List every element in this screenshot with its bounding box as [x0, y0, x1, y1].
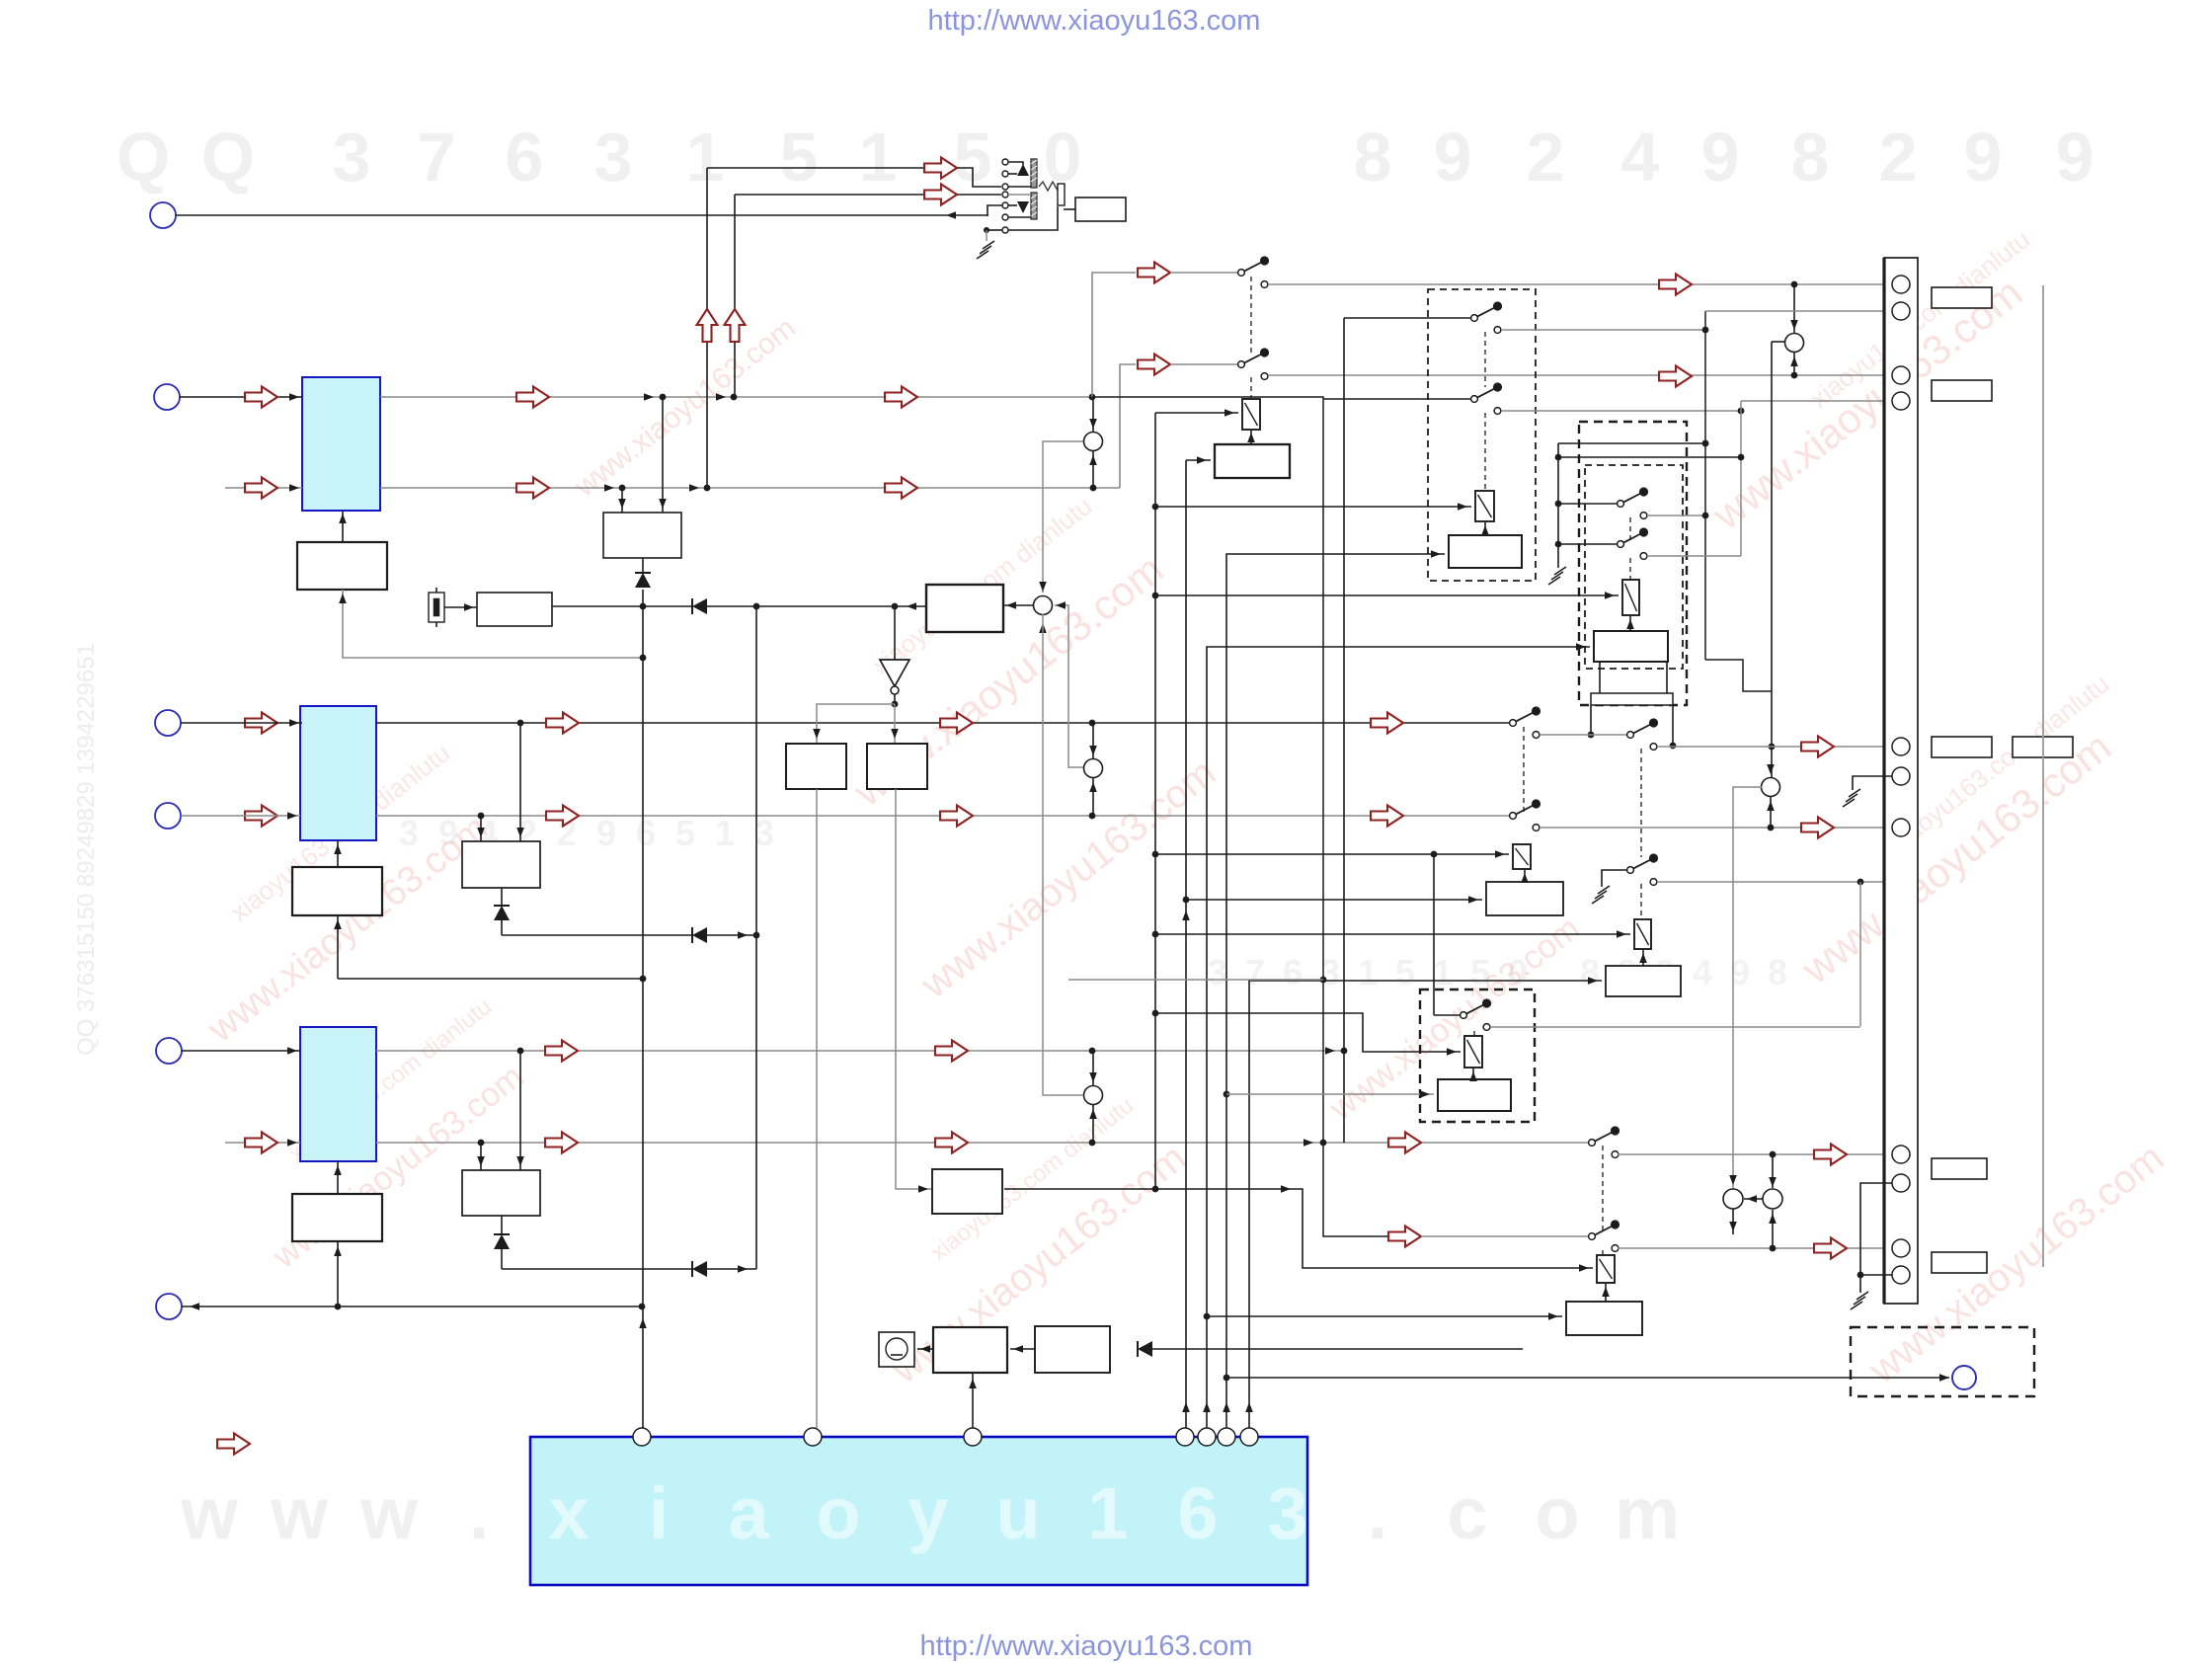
stub box CN2-4: [2013, 737, 2073, 757]
switch S2 monitor R: [1238, 348, 1270, 379]
control trunk x1340: [1092, 397, 1388, 1236]
wire y463: [1558, 456, 1741, 458]
wire pin4 line: [1741, 400, 1893, 402]
sub box B5a: [786, 744, 846, 789]
relay RL5: [1634, 919, 1651, 949]
svg-text:.: .: [1368, 1472, 1388, 1554]
wire pin6 ground: [1853, 776, 1892, 790]
control trunk x1242: [1223, 550, 1445, 1428]
signal arrow row L3 c: [1371, 713, 1403, 734]
sub box B6 under IC2: [292, 867, 382, 915]
wire J3 to IC3: [182, 1047, 300, 1055]
mute dashed SH1-SI1: [1602, 1146, 1604, 1232]
wire B21 to RL7: [1602, 1284, 1610, 1302]
wire B12 to plug: [917, 1345, 933, 1353]
svg-text:5: 5: [675, 813, 695, 853]
mute dashed SB1-RL2: [1484, 413, 1486, 491]
sub box B7 mid: [462, 841, 540, 888]
svg-text:http://www.xiaoyu163.com: http://www.xiaoyu163.com: [928, 5, 1261, 37]
signal arrow row L3 in: [245, 713, 277, 734]
signal arrow row R2 a: [545, 1133, 578, 1153]
wire B9 in a: [477, 1143, 485, 1170]
wire B21 feed: [1207, 1312, 1562, 1320]
wire M1 top: [1089, 397, 1097, 432]
signal arrow row L4 a: [546, 806, 579, 827]
svg-text:9: 9: [596, 813, 616, 853]
wire SD2 line: [1421, 1235, 1589, 1237]
sub box B18: [1486, 882, 1563, 915]
AC plug symbol: [879, 1332, 914, 1367]
signal arrow row L4 in: [245, 806, 277, 827]
mixer M3: [1084, 759, 1103, 778]
wire B18 feed: [1186, 896, 1482, 904]
connector J7 input IC2-1: [155, 710, 181, 736]
wire row L3 stub: [181, 719, 302, 727]
switch SA2: [1618, 487, 1649, 518]
wire row L1 (y402): [380, 393, 1095, 401]
wire M6 bottom: [1767, 797, 1775, 828]
record arrow up 1: [697, 309, 718, 342]
signal arrow row R2 b: [935, 1133, 968, 1153]
wire B20 feed: [1226, 1090, 1434, 1098]
wire J1 to headphone jack: [176, 211, 987, 219]
svg-text:9: 9: [2056, 119, 2094, 196]
wire y449: [1558, 440, 1708, 447]
amplifier block IC2: [300, 706, 376, 840]
svg-text:o: o: [1535, 1472, 1579, 1554]
control trunk x1222: [1203, 643, 1590, 1428]
connector bar CN1: [1884, 258, 1918, 1304]
svg-text:1: 1: [686, 119, 725, 196]
wire rec line bot2: [957, 194, 1001, 196]
wire SF1 pivot gnd: [1602, 870, 1627, 887]
wire gray y992: [1068, 979, 1323, 981]
staircase to M6: [1705, 660, 1772, 691]
pin CN1-1: [1892, 276, 1910, 293]
svg-text:9: 9: [1434, 119, 1472, 196]
board edge line x2069: [2042, 285, 2044, 1267]
pin CN1-8: [1892, 1146, 1910, 1163]
connector J1 line-in L: [150, 202, 176, 228]
svg-text:3: 3: [1208, 952, 1227, 992]
signal arrow SI1 out: [1814, 1238, 1847, 1259]
wire SB1 feed: [1323, 398, 1471, 400]
wire M7R bottom: [1769, 1210, 1777, 1248]
pin CN1-6: [1892, 767, 1910, 785]
ground at pin11: [1851, 1292, 1868, 1309]
record arrow up 2: [725, 309, 746, 342]
wire B1 to IC1: [339, 511, 347, 542]
pin CN1-11: [1892, 1266, 1910, 1284]
diode D4 row y947: [692, 927, 707, 943]
sub box B20: [1438, 1079, 1511, 1111]
mute dashed link S2-R1: [1250, 377, 1252, 399]
control trunk x1361: [1344, 318, 1471, 1143]
diode D3 under B7: [494, 888, 510, 935]
wire SA2 out: [1647, 513, 1708, 519]
mixer M7L: [1723, 1189, 1743, 1209]
signal arrow row R1 a: [545, 1041, 578, 1062]
sub box B14 relay driver: [1215, 444, 1290, 478]
svg-text:a: a: [728, 1472, 769, 1554]
switch SA1: [1471, 301, 1503, 333]
wire B14 to RL1: [1247, 430, 1255, 444]
wire B6 feed: [334, 915, 342, 979]
wire RL6 feed: [1155, 1013, 1461, 1056]
trunk x1763: [1738, 401, 1745, 556]
wire S2 out: [1268, 372, 1896, 379]
wire M4 top: [1089, 1051, 1097, 1085]
wire row y1285 right: [707, 1265, 756, 1273]
wire row R2 (y1157): [225, 1139, 300, 1147]
svg-text:8: 8: [1791, 119, 1830, 196]
signal arrow SD1 out: [1801, 737, 1834, 757]
wire row y1285: [502, 1268, 692, 1270]
wire B7 in b: [516, 723, 524, 841]
trunk x1727: [1702, 311, 1709, 660]
svg-text:1: 1: [1358, 952, 1378, 992]
control trunk x1201: [1182, 460, 1190, 1428]
diode D6 row y1285: [692, 1261, 707, 1277]
svg-text:7: 7: [1245, 952, 1265, 992]
stub box CN2-3: [1932, 737, 1992, 757]
svg-text:http://www.xiaoyu163.com: http://www.xiaoyu163.com: [920, 1630, 1253, 1662]
wire B19 to RL5: [1639, 950, 1647, 966]
signal arrow to SD2: [1388, 1227, 1421, 1247]
switch SG1: [1461, 998, 1492, 1030]
wire B7 in a: [477, 816, 485, 841]
mute dashed SC1-SE1: [1523, 727, 1525, 812]
wire M6 top arrow: [1767, 764, 1775, 774]
relay RL1: [1242, 399, 1260, 430]
mute dashed SD1 down: [1640, 749, 1642, 857]
switch SE1: [1510, 799, 1541, 831]
wire row L2 (y494): [225, 484, 302, 492]
pin P2 on system control IC: [804, 1428, 822, 1446]
wire RL2 feed: [1155, 503, 1471, 511]
vertical trunk x827 to P2: [816, 789, 818, 1428]
sub box B1 under IC1: [297, 542, 387, 590]
relay RL7: [1597, 1255, 1615, 1283]
wire B16 to RL3: [1626, 616, 1634, 631]
power box B12: [933, 1327, 1007, 1373]
svg-text:4: 4: [1693, 952, 1712, 992]
diode D2 under B3: [635, 573, 651, 588]
svg-text:3: 3: [594, 119, 633, 196]
wire power feed: [1141, 1345, 1523, 1353]
signal arrow monitor R: [1138, 355, 1170, 375]
wire riser x1107 monitor: [1092, 273, 1136, 397]
mute dashed SA1-SB1: [1484, 332, 1486, 387]
wire SB1 out: [1501, 408, 1744, 415]
ground at jack: [977, 241, 994, 259]
wire B8 feed: [334, 1241, 342, 1307]
wire B20 to RL6: [1469, 1069, 1477, 1081]
signal arrow row L4 c: [1371, 806, 1403, 827]
dashed function box D2 outer: [1579, 422, 1687, 705]
wire inverter out: [892, 694, 899, 707]
wire M5 bottom: [1790, 353, 1798, 375]
sub box B4 PLL: [926, 585, 1003, 632]
wire pin2 line: [1705, 310, 1893, 312]
wire M4 left feed: [1043, 614, 1083, 1095]
sub box B8 under IC3: [292, 1194, 382, 1241]
svg-text:8: 8: [1768, 952, 1787, 992]
switch SC1: [1510, 706, 1541, 738]
wire B17 right drop: [1670, 705, 1677, 749]
sub box B5b: [867, 744, 927, 789]
wire B14 feed: [1186, 456, 1211, 464]
wire monitor R to switch: [1170, 363, 1238, 365]
signal arrow monitor L: [1138, 263, 1170, 283]
svg-text:3: 3: [1267, 1472, 1307, 1554]
svg-text:3: 3: [399, 813, 419, 853]
wire M3 top: [1089, 723, 1097, 758]
wire SE1 out: [1540, 825, 1893, 831]
svg-text:y: y: [908, 1472, 948, 1554]
stub box CN2-1: [1932, 287, 1992, 308]
vertical trunk x907 to B11: [896, 789, 932, 1193]
svg-text:8: 8: [1580, 952, 1600, 992]
bracket ground x1578: [1555, 443, 1562, 568]
svg-text:7: 7: [418, 119, 456, 196]
wire row y947 right: [707, 931, 759, 939]
wire B6 to IC2: [334, 840, 342, 867]
switch SI1: [1589, 1220, 1620, 1251]
stub box CN2-2: [1932, 380, 1992, 401]
sub box B16 relay driver: [1594, 631, 1668, 662]
wire RL7 feed: [1004, 1185, 1593, 1272]
wire M5 top: [1790, 284, 1798, 333]
svg-text:1: 1: [859, 119, 898, 196]
ground at bracket: [1548, 567, 1566, 585]
mixer M6: [1762, 778, 1780, 797]
control trunk x1170: [1152, 413, 1159, 1192]
wire M7R to M7L: [1744, 1195, 1763, 1203]
wire row L4 stub: [181, 812, 300, 820]
wire SG1 out: [1490, 1026, 1860, 1028]
relay RL6: [1464, 1036, 1482, 1068]
connector J3 input R: [156, 1038, 182, 1064]
wire SA1 out: [1501, 327, 1708, 334]
stub box CN2-6: [1932, 1252, 1987, 1273]
stub box CN2-5: [1932, 1158, 1987, 1179]
pin CN1-5: [1892, 738, 1910, 755]
signal arrow row L1 a: [516, 387, 549, 408]
wire row y991: [338, 978, 643, 980]
pin CN1-2: [1892, 302, 1910, 320]
trunk x1794 M5-M6: [1769, 342, 1784, 778]
pin P5 on system control IC: [1198, 1428, 1216, 1446]
signal arrow SH1 out: [1814, 1145, 1847, 1165]
diode D1 row osc: [692, 598, 707, 614]
signal arrow SE1 out: [1801, 818, 1834, 838]
wire X1 to B2: [444, 603, 477, 611]
power box B13: [1035, 1326, 1110, 1373]
u-link under B16: [1600, 662, 1667, 693]
pin P4 on system control IC: [1176, 1428, 1194, 1446]
svg-text:3: 3: [754, 813, 774, 853]
signal arrow row L2 b: [885, 478, 917, 499]
svg-text:5: 5: [1395, 952, 1415, 992]
wire J2 to IC1: [180, 393, 302, 401]
signal arrow row R1 b: [935, 1041, 968, 1062]
vertical x1452: [1431, 851, 1438, 1015]
wire pin9-11 bracket: [1857, 1183, 1892, 1293]
legend arrow: [217, 1434, 250, 1455]
crystal X1: [429, 588, 444, 627]
wire row osc y614: [552, 603, 692, 610]
wire S1 out: [1268, 281, 1896, 288]
signal arrow row R2 in: [245, 1133, 277, 1153]
wire B3 in right: [618, 488, 626, 513]
mute dashed SA2-SB2: [1629, 517, 1631, 540]
vertical x1884: [1859, 882, 1861, 1026]
signal arrow S2 out: [1659, 366, 1692, 387]
mixer M4: [1084, 1086, 1103, 1105]
wire row L3 (y732): [376, 720, 1510, 727]
wire B8 to IC3: [334, 1161, 342, 1194]
relay RL4: [1513, 844, 1531, 869]
signal arrow row L2 in: [245, 478, 277, 499]
wire M1 bottom: [1089, 451, 1097, 488]
wire B3 diode: [642, 558, 644, 573]
svg-text:2: 2: [1527, 119, 1565, 196]
inverter U2: [880, 606, 909, 694]
wire M6 left: [1729, 787, 1762, 1189]
wire rec line top: [707, 158, 957, 179]
svg-text:6: 6: [506, 119, 544, 196]
svg-text:8: 8: [1354, 119, 1392, 196]
ground at pin6: [1843, 789, 1860, 807]
wire RL3 feed: [1155, 592, 1619, 599]
watermark letters over system control IC: [548, 1472, 1307, 1554]
wire row L2 out: [380, 484, 1120, 492]
svg-text:Q: Q: [117, 119, 170, 196]
wire row R1 (y1064): [376, 1047, 1347, 1055]
wire row osc y614 right: [707, 602, 926, 610]
connector J2 input L: [154, 384, 180, 410]
dashed function box D3: [1420, 990, 1535, 1122]
headphone detect box: [1075, 198, 1126, 221]
amplifier block IC1: [302, 377, 380, 511]
wire B13 to B12: [1010, 1345, 1035, 1353]
wire RL1 feed: [1155, 409, 1238, 417]
switch SD1: [1627, 718, 1659, 750]
control trunk x1265: [1245, 977, 1602, 1428]
connector J6 remote: [1952, 1366, 1976, 1389]
svg-text:m: m: [1615, 1472, 1680, 1554]
sub box B11: [932, 1169, 1002, 1214]
relay RL3: [1622, 580, 1639, 615]
wire M4 bottom: [1089, 1105, 1097, 1143]
wire to remote connector: [1226, 1374, 1949, 1382]
mixer M1: [1084, 433, 1103, 451]
svg-text:u: u: [995, 1472, 1040, 1554]
svg-text:3: 3: [333, 119, 371, 196]
diode D5 under B9: [494, 1216, 510, 1269]
switch SB1: [1471, 382, 1503, 414]
wire riser x1134: [1120, 364, 1136, 488]
wire SI1 out: [1618, 1245, 1893, 1252]
wire SA2 pivot feed: [1558, 503, 1617, 505]
amplifier block IC3: [300, 1027, 376, 1161]
svg-text:6: 6: [636, 813, 656, 853]
wire M3 bottom: [1089, 778, 1097, 816]
wire monitor L to switch: [1170, 272, 1238, 274]
svg-text:6: 6: [1283, 952, 1303, 992]
wire row R2 out: [376, 1139, 1589, 1147]
wire B12 to P3: [969, 1373, 977, 1428]
wire B18 to RL4: [1521, 870, 1529, 883]
wire SH1 out: [1618, 1151, 1893, 1158]
wire row L4 (y826): [376, 813, 1510, 820]
svg-text:QQ 376315150 89249829 139422: QQ 376315150 89249829 1394229651: [73, 643, 100, 1056]
connector J8 input IC2-2: [155, 803, 181, 829]
sub box B17 flat: [1591, 693, 1673, 705]
wire M7L down: [1729, 1209, 1737, 1234]
mute dashed SF1-RL5: [1640, 884, 1642, 917]
wire row y947: [502, 934, 692, 936]
signal arrow row L1 b: [885, 387, 917, 408]
pin P6 on system control IC: [1218, 1428, 1235, 1446]
sub box B9 mid: [462, 1170, 540, 1216]
svg-text:9: 9: [1701, 119, 1740, 196]
mute dashed SB2-RL3: [1629, 558, 1631, 580]
switch SF1: [1627, 853, 1659, 885]
wire M2 to B4: [1003, 601, 1034, 609]
svg-text:5: 5: [780, 119, 819, 196]
dashed function box D1: [1428, 289, 1536, 581]
system control IC bottom: [530, 1437, 1307, 1585]
watermark URL bottom: [920, 1630, 1253, 1662]
mixer M5 rec: [1785, 334, 1804, 353]
wire B15 to RL2: [1481, 522, 1489, 535]
vertical trunk x766: [755, 606, 757, 1269]
signal arrow row R2 c: [1388, 1133, 1421, 1153]
svg-text:i: i: [649, 1472, 670, 1554]
wire M7R top: [1769, 1154, 1777, 1188]
wire jack to detect box: [1064, 208, 1075, 210]
svg-text:w: w: [180, 1472, 238, 1554]
svg-text:4: 4: [1621, 119, 1660, 196]
svg-text:Q: Q: [201, 119, 255, 196]
svg-text:o: o: [816, 1472, 860, 1554]
svg-text:x: x: [548, 1472, 589, 1554]
mixer M7R: [1763, 1189, 1782, 1209]
wire RL5 feed: [1155, 930, 1630, 938]
pin CN1-9: [1892, 1174, 1910, 1192]
signal arrow S1 out: [1659, 275, 1692, 295]
pin P1 on system control IC: [633, 1428, 651, 1446]
signal arrow row L2 a: [516, 478, 549, 499]
svg-text:w: w: [270, 1472, 328, 1554]
watermark URL top: [928, 5, 1261, 37]
wire output bus to J4: [182, 1303, 645, 1310]
switch S1 monitor L: [1238, 256, 1270, 287]
wire B9 in b: [516, 1051, 524, 1170]
pin P3 on system control IC: [964, 1428, 982, 1446]
wire SG1 pivot feed: [1434, 1014, 1461, 1016]
wire SC1 out: [1540, 734, 1627, 736]
vertical trunk x651: [639, 590, 647, 1428]
svg-text:.: .: [469, 1472, 490, 1554]
sub box B2 oscillator: [477, 593, 552, 626]
sub box B15 relay driver: [1449, 535, 1522, 568]
switch SH1: [1589, 1126, 1620, 1157]
pin CN1-4: [1892, 392, 1910, 410]
diode D7 power: [1138, 1341, 1152, 1357]
